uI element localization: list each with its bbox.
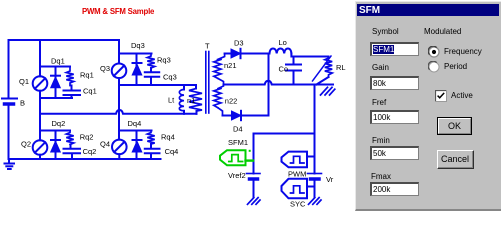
svg-text:Dq1: Dq1 bbox=[51, 57, 65, 66]
svg-text:Cq4: Cq4 bbox=[165, 147, 179, 156]
svg-text:Rq4: Rq4 bbox=[161, 133, 175, 142]
svg-text:Cq1: Cq1 bbox=[83, 87, 97, 96]
svg-text:n22: n22 bbox=[225, 97, 238, 106]
svg-text:Q4: Q4 bbox=[100, 140, 110, 149]
svg-text:Co: Co bbox=[279, 65, 289, 74]
svg-text:Vr: Vr bbox=[326, 175, 334, 184]
svg-text:Rq2: Rq2 bbox=[80, 133, 94, 142]
svg-text:n1: n1 bbox=[187, 96, 195, 105]
svg-text:Lt: Lt bbox=[168, 96, 175, 105]
svg-text:Lo: Lo bbox=[279, 38, 287, 47]
svg-text:Cq3: Cq3 bbox=[163, 73, 177, 82]
svg-text:PWM: PWM bbox=[288, 170, 306, 179]
svg-text:Q2: Q2 bbox=[21, 140, 31, 149]
svg-text:D4: D4 bbox=[233, 125, 243, 134]
svg-text:B: B bbox=[20, 99, 25, 108]
svg-text:Dq4: Dq4 bbox=[128, 119, 142, 128]
svg-text:SFM1: SFM1 bbox=[228, 138, 248, 147]
svg-text:D3: D3 bbox=[234, 39, 244, 48]
svg-text:Q3: Q3 bbox=[100, 64, 110, 73]
svg-text:T: T bbox=[205, 42, 210, 51]
svg-text:Vref2: Vref2 bbox=[228, 171, 246, 180]
svg-text:Rq3: Rq3 bbox=[157, 56, 171, 65]
svg-text:Dq2: Dq2 bbox=[52, 119, 66, 128]
svg-text:RL: RL bbox=[336, 63, 346, 72]
svg-text:Rq1: Rq1 bbox=[80, 71, 94, 80]
svg-text:PWM & SFM Sample: PWM & SFM Sample bbox=[82, 7, 155, 16]
svg-text:Q1: Q1 bbox=[19, 77, 29, 86]
svg-text:Cq2: Cq2 bbox=[83, 147, 97, 156]
svg-text:Dq3: Dq3 bbox=[131, 41, 145, 50]
svg-text:SYC: SYC bbox=[290, 200, 306, 209]
svg-text:n21: n21 bbox=[224, 61, 237, 70]
